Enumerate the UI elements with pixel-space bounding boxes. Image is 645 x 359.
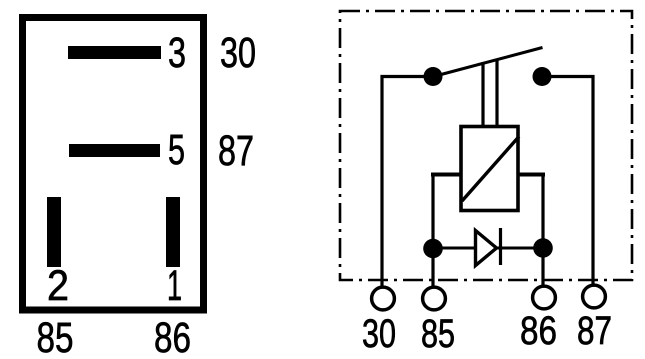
svg-text:30: 30: [220, 29, 256, 77]
svg-text:87: 87: [218, 127, 254, 175]
wire: coil left to terminal 85: [431, 175, 434, 288]
svg-text:2: 2: [47, 262, 69, 310]
coil diagonal: [462, 137, 519, 202]
enclosure dash-dot border: [340, 11, 632, 280]
terminal circle 86: [533, 286, 556, 309]
armature link line 2: [495, 59, 498, 127]
svg-text:86: 86: [154, 314, 191, 359]
svg-text:86: 86: [520, 309, 557, 353]
svg-text:1: 1: [167, 262, 182, 310]
coil stub left: [431, 173, 461, 177]
svg-text:85: 85: [421, 312, 455, 356]
coil box: [461, 127, 518, 211]
pin 2 blade: [47, 197, 61, 267]
wire: right contact to terminal 87: [542, 77, 593, 287]
terminal circle 85: [423, 287, 446, 310]
switch contact dot right: [533, 67, 552, 86]
pin 3 blade: [68, 46, 161, 59]
junction dot 85: [423, 239, 443, 259]
relay connector outline: [23, 18, 204, 311]
pin 1 blade: [166, 197, 180, 267]
wire: left contact to terminal 30: [382, 77, 433, 288]
svg-text:87: 87: [577, 309, 612, 353]
switch blade: [441, 48, 543, 75]
wire: coil right to terminal 86: [541, 175, 544, 287]
pin 5 blade: [69, 144, 160, 157]
diode wire: [433, 247, 543, 250]
svg-text:3: 3: [168, 29, 186, 77]
terminal circle 30: [372, 287, 395, 310]
svg-text:30: 30: [362, 312, 396, 356]
switch contact dot left: [424, 67, 443, 86]
coil stub right: [518, 173, 545, 177]
diode cathode bar: [499, 228, 502, 265]
junction dot 86: [533, 238, 553, 258]
svg-text:5: 5: [168, 126, 185, 174]
terminal circle 87: [583, 285, 606, 308]
diode triangle: [476, 231, 497, 266]
armature link line 1: [481, 62, 484, 126]
svg-text:85: 85: [37, 314, 74, 359]
